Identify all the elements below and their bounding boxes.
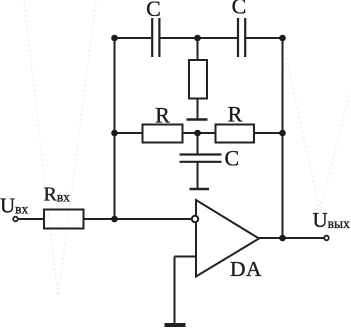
wire: capacitor C3 to its ground bar <box>197 162 199 188</box>
op-amp DA triangle <box>196 200 259 277</box>
svg-text:C: C <box>146 0 161 21</box>
wire: left vertical rail <box>114 37 116 219</box>
wire: middle row, R2 to right rail <box>254 132 283 134</box>
node: input junction on left rail <box>111 216 118 223</box>
wire: vertical resistor to its ground bar <box>197 99 199 119</box>
wire: top rail middle segment <box>161 37 238 39</box>
svg-text:Uвых: Uвых <box>313 208 351 232</box>
wire: Rvx to inverting input of op-amp <box>84 218 193 220</box>
svg-text:R: R <box>155 103 170 128</box>
node: middle left junction <box>111 130 118 137</box>
node: top center junction <box>194 35 201 42</box>
svg-text:C: C <box>225 146 240 171</box>
node: middle right junction <box>279 130 286 137</box>
wire: top rail right segment <box>246 37 283 39</box>
wire: middle row, left rail to R1 <box>115 132 143 134</box>
svg-text:Uвх: Uвх <box>0 194 29 218</box>
wire: input terminal to resistor Rvx <box>18 218 44 220</box>
wire: top node down to vertical resistor <box>197 38 199 60</box>
wire: right vertical rail <box>282 37 284 238</box>
ground bar under vertical resistor <box>187 118 208 120</box>
capacitor C3 (center, horizontal plates) <box>180 155 222 162</box>
ground bar under capacitor C3 <box>190 188 210 190</box>
resistor R1 (middle left) <box>143 125 183 143</box>
svg-text:Rвх: Rвх <box>44 184 71 206</box>
node: output junction <box>279 235 286 242</box>
ground bar at bottom <box>165 323 186 327</box>
wire: center node down to capacitor C3 <box>197 133 199 154</box>
output terminal circle <box>324 236 329 241</box>
capacitor C1 (top left) <box>152 18 159 57</box>
node: top right junction <box>279 35 286 42</box>
wire: non-inverting input down to ground <box>174 257 176 325</box>
svg-text:DA: DA <box>230 257 262 281</box>
resistor Rvx (input) <box>44 210 84 229</box>
wire: non-inverting input horizontal <box>175 256 197 258</box>
wire: op-amp output to output terminal <box>259 237 325 239</box>
inverting input circle of DA <box>192 216 198 222</box>
input terminal circle <box>13 217 18 222</box>
capacitor C2 (top right) <box>238 18 245 57</box>
resistor R3 (vertical, center) <box>189 60 207 99</box>
node: middle center junction <box>194 130 201 137</box>
wire: middle row, R1 to R2 through center node <box>183 132 216 134</box>
svg-text:R: R <box>228 102 243 127</box>
node: top left junction <box>111 35 118 42</box>
resistor R2 (middle right) <box>216 125 255 143</box>
wire: top rail left segment <box>115 37 152 39</box>
svg-text:C: C <box>232 0 247 19</box>
